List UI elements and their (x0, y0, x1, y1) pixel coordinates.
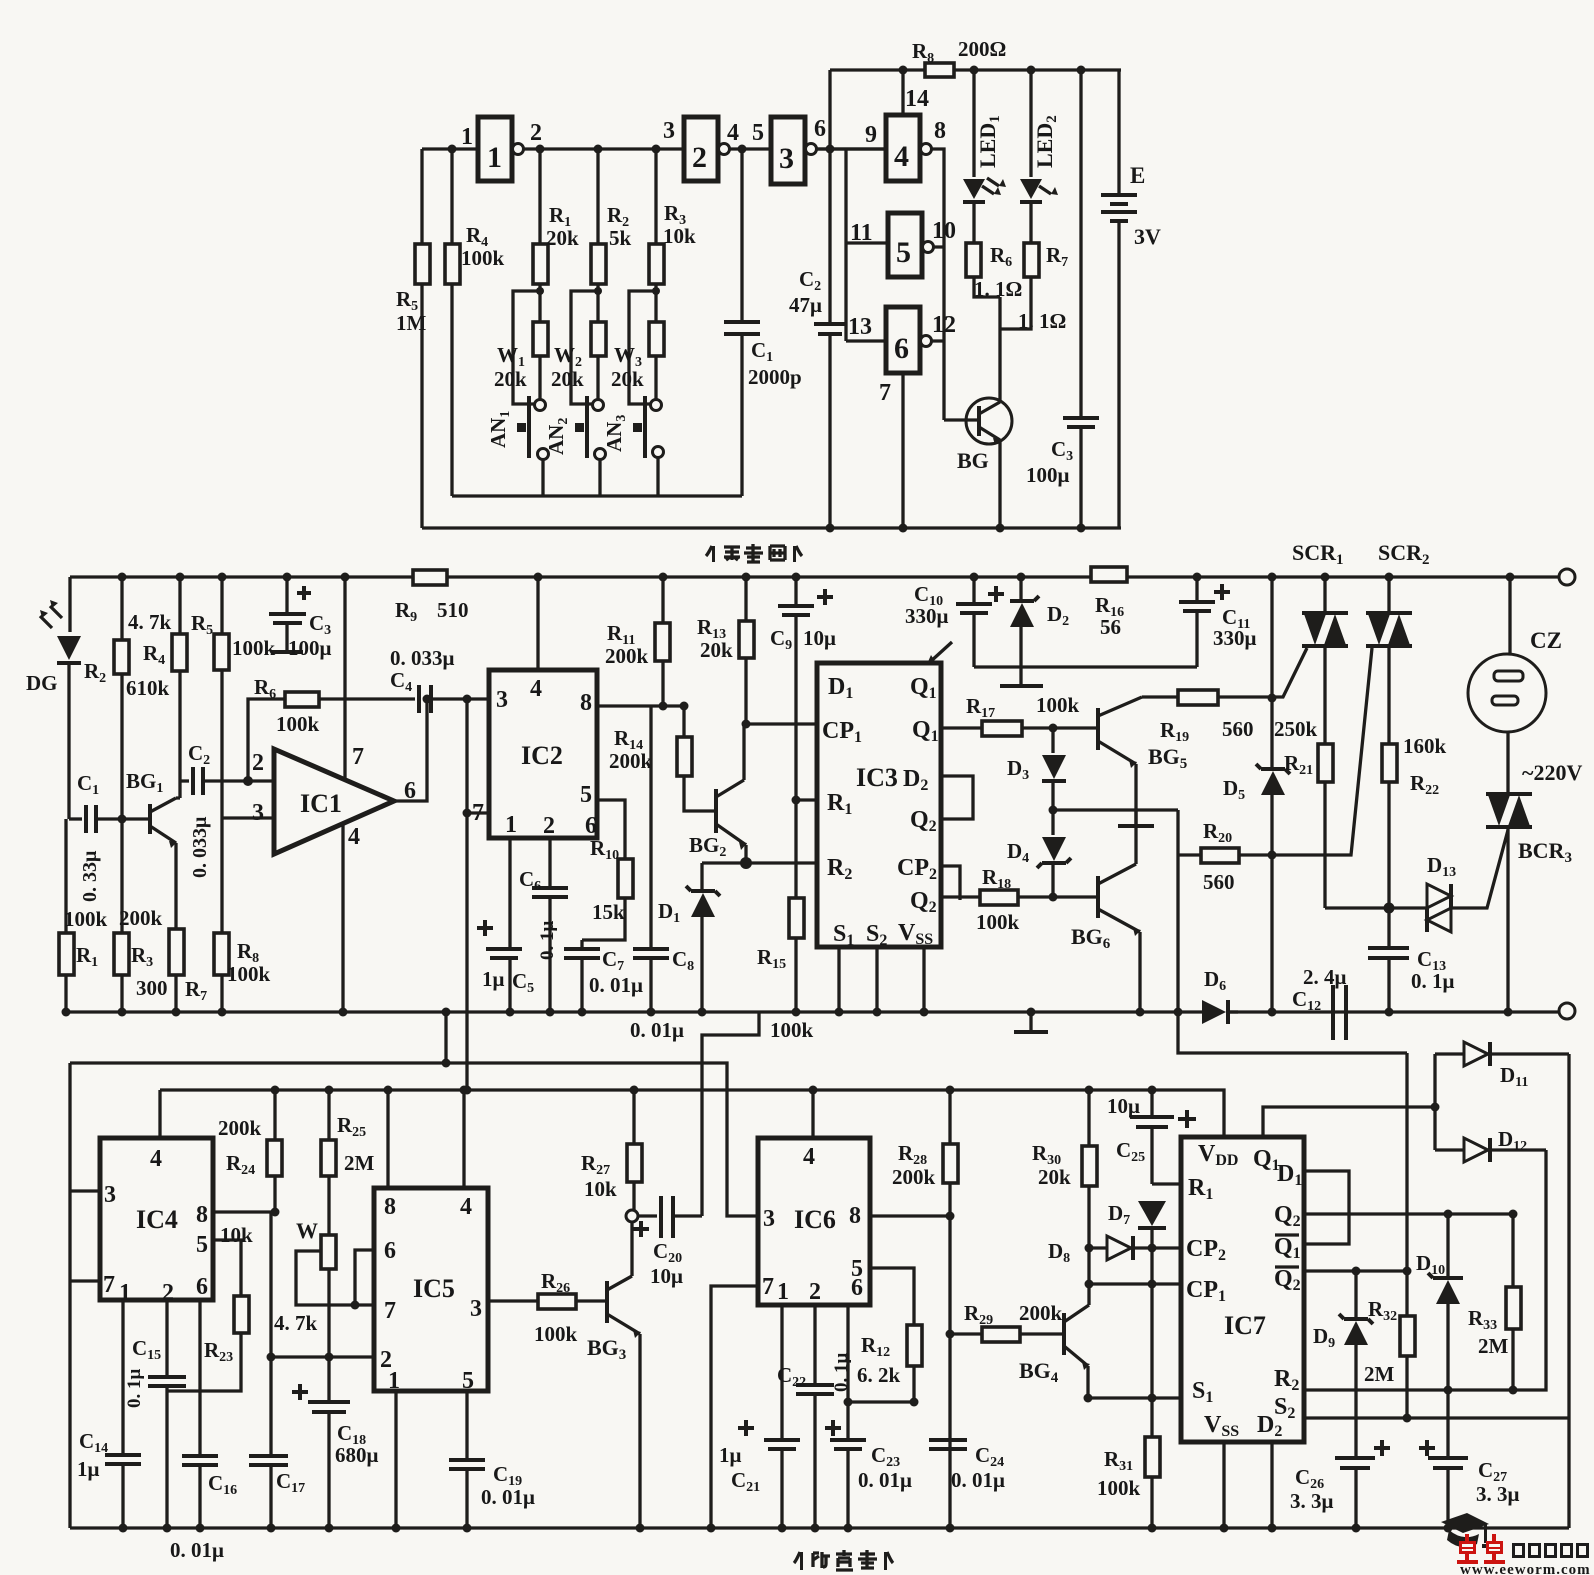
wire BG6 emitter to bus (1138, 932, 1141, 1012)
svg-text:5: 5 (196, 1232, 208, 1258)
junction dots middle (118, 573, 127, 582)
capacitor C21 1u pin1 (780, 1305, 783, 1438)
wire IC5 pin2 row (271, 1355, 374, 1358)
svg-text:20k: 20k (611, 367, 644, 391)
svg-text:IC1: IC1 (300, 789, 342, 818)
wire BG5 collector to R19 (1142, 695, 1178, 698)
svg-text:8: 8 (196, 1202, 208, 1228)
wire IC6 pin4 to W2 (811, 1090, 814, 1138)
svg-text:10k: 10k (584, 1177, 617, 1201)
svg-text:2. 4μ: 2. 4μ (1303, 965, 1347, 989)
capacitor C12 2.4u on bus (1333, 985, 1346, 1040)
wire IC7 D1-Q1bar loop (1304, 1171, 1349, 1244)
resistor R25 2M (327, 1090, 330, 1140)
svg-text:100k: 100k (770, 1018, 814, 1042)
svg-text:BCR3: BCR3 (1518, 838, 1572, 866)
transistor BG5 (1096, 708, 1100, 750)
wire IC7 Vss D2 pins down (1224, 1442, 1272, 1528)
svg-text:7: 7 (879, 380, 891, 406)
svg-text:20k: 20k (1038, 1165, 1071, 1189)
D2 ground stub (1019, 667, 1022, 684)
svg-text:0. 1μ: 0. 1μ (124, 1369, 145, 1409)
wire bus-to-W1 link (444, 1012, 447, 1063)
capacitor C13 0.1u (1368, 948, 1409, 958)
resistor R30 20k (1087, 1090, 1090, 1146)
resistor R28 200k (948, 1090, 951, 1144)
wire IC1 output to C4 node (394, 699, 427, 801)
svg-text:13: 13 (848, 314, 872, 340)
svg-text:www.eeworm.com: www.eeworm.com (1460, 1562, 1591, 1575)
resistor R14 200k (677, 737, 692, 776)
wire IC6 pin8 row (870, 1214, 950, 1217)
capacitor C18 680u (308, 1402, 350, 1412)
svg-text:8: 8 (849, 1203, 861, 1229)
transistor BG1 (148, 804, 152, 834)
wire C10-C11 bottom link (974, 665, 1197, 668)
svg-text:IC2: IC2 (521, 741, 563, 770)
transistor BG6 (1096, 876, 1100, 918)
IC4 box (100, 1138, 213, 1300)
resistor R7 emitter (169, 929, 184, 975)
wire IC4 pin7 (70, 1279, 100, 1282)
capacitor C14 1u pin1 (121, 1300, 124, 1453)
svg-text:5: 5 (580, 782, 592, 808)
svg-text:330μ: 330μ (905, 604, 949, 628)
svg-text:BG: BG (957, 448, 989, 473)
svg-text:6: 6 (384, 1238, 396, 1264)
svg-text:E: E (1130, 163, 1145, 188)
svg-text:4. 7k: 4. 7k (274, 1311, 318, 1335)
wire IC7 Q2 row to R33 (1304, 1214, 1513, 1287)
IC5 box (374, 1188, 488, 1391)
terminal top right (1559, 569, 1575, 585)
wire IC2 pin7 to x467 (467, 811, 489, 814)
svg-text:680μ: 680μ (335, 1443, 379, 1467)
svg-text:IC5: IC5 (413, 1274, 455, 1303)
resistor R8 200ohm (transmitter) (925, 63, 954, 77)
svg-text:6: 6 (894, 332, 909, 365)
wire Q2 out to R18 (941, 895, 980, 898)
resistor R4 610k column (178, 577, 181, 634)
resistor R4 100k (445, 244, 460, 284)
svg-text:1μ: 1μ (482, 967, 505, 991)
svg-text:14: 14 (905, 86, 929, 112)
svg-text:200k: 200k (119, 906, 163, 930)
resistor R2 5k column (596, 149, 599, 244)
wire IC5 pin5 to C19 (465, 1391, 468, 1458)
svg-text:0. 33μ: 0. 33μ (79, 850, 101, 902)
svg-text:1μ: 1μ (77, 1457, 100, 1481)
capacitor C23 0.01u pin6 (846, 1305, 849, 1438)
svg-text:1: 1 (388, 1368, 400, 1394)
svg-text:3. 3μ: 3. 3μ (1290, 1489, 1334, 1513)
wire CP1 to IC3 (744, 722, 817, 725)
IC6 box (758, 1138, 870, 1305)
svg-text:1: 1 (505, 812, 517, 838)
resistor R31 100k (1145, 1437, 1160, 1477)
wire gate6 pin7 (901, 373, 904, 528)
zener D10 (1446, 1214, 1449, 1277)
capacitor C26 3.3u (1335, 1458, 1375, 1468)
gate 6 (886, 307, 920, 373)
terminal bottom right (1559, 1003, 1575, 1019)
diode D12 (1435, 1148, 1464, 1151)
wire IC5 pin1 down (394, 1391, 397, 1528)
zener D1 (700, 863, 703, 890)
svg-text:47μ: 47μ (789, 293, 822, 317)
svg-text:6: 6 (814, 116, 826, 142)
resistor R17 100k (982, 721, 1022, 736)
svg-text:1: 1 (487, 141, 502, 174)
IC3 CP2 jog (941, 866, 960, 900)
resistor R12 6.2k (907, 1325, 922, 1366)
svg-text:1: 1 (777, 1279, 789, 1305)
gate 4 (886, 115, 920, 181)
resistor R2 (4.7k) column (120, 577, 123, 640)
triac SCR1 (1323, 577, 1326, 613)
svg-text:7: 7 (103, 1272, 115, 1298)
wire BG2 emitter down (744, 845, 747, 863)
wire R6/R7 bottoms to collector node (974, 277, 1031, 401)
svg-text:7: 7 (762, 1274, 774, 1300)
svg-text:10μ: 10μ (803, 626, 836, 650)
wire IC4 pin8 row (213, 1210, 275, 1213)
wire x830 vertical with C2 (828, 70, 831, 528)
svg-text:5: 5 (752, 120, 764, 146)
svg-text:200k: 200k (218, 1116, 262, 1140)
svg-text:2M: 2M (1478, 1334, 1509, 1358)
wire gate row to D13 (1325, 906, 1427, 909)
wire IC5 pin3 to R26 (488, 1299, 538, 1302)
resistor R29 200k (950, 1332, 982, 1335)
capacitor C8 0.01u (649, 706, 652, 947)
wire IC7 R2 row (1304, 1150, 1546, 1390)
watermark logo (1441, 1513, 1591, 1575)
svg-text:560: 560 (1222, 717, 1254, 741)
wire CP1 row (1089, 1282, 1181, 1285)
diode D11 (1435, 1052, 1464, 1055)
wire right edge vertical (1567, 1054, 1570, 1528)
transistor BG (966, 398, 1012, 444)
zener D5 (1270, 577, 1273, 768)
resistor R1 20k column (538, 149, 541, 244)
IC3 box (817, 663, 941, 947)
resistor R8 100k lower (214, 933, 229, 975)
svg-text:200Ω: 200Ω (958, 37, 1006, 61)
zener D2 (1019, 577, 1022, 600)
svg-text:330μ: 330μ (1213, 626, 1257, 650)
LED1 (972, 70, 975, 177)
svg-text:10μ: 10μ (650, 1264, 683, 1288)
wire IC7 Q1 pin to D11/D12 node (1263, 1107, 1435, 1137)
svg-text:LED1: LED1 (975, 115, 1003, 168)
svg-text:7: 7 (384, 1298, 396, 1324)
svg-text:CZ: CZ (1530, 628, 1562, 653)
svg-text:IC7: IC7 (1224, 1311, 1266, 1340)
pushbutton AN2 (593, 400, 604, 411)
svg-text:3: 3 (104, 1182, 116, 1208)
svg-text:1M: 1M (396, 311, 427, 335)
capacitor C16 pin6 (198, 1300, 201, 1454)
svg-text:IC6: IC6 (794, 1205, 836, 1234)
svg-text:0. 01μ: 0. 01μ (481, 1485, 535, 1509)
svg-text:2: 2 (252, 750, 264, 776)
wire R2 row to IC3 (702, 861, 817, 864)
wire receiver top bus (70, 575, 1560, 578)
resistor R10 15k (618, 859, 633, 898)
svg-text:0. 1μ: 0. 1μ (1411, 969, 1455, 993)
svg-text:20k: 20k (551, 367, 584, 391)
capacitor C2 0.033u (180, 779, 189, 782)
socket CZ (1468, 654, 1546, 732)
wire IC2 pin4 to bus (536, 577, 539, 670)
svg-text:20k: 20k (700, 638, 733, 662)
wire outer bottom bus (422, 526, 1121, 529)
svg-text:2M: 2M (1364, 1362, 1395, 1386)
junction dots bottom (442, 1059, 451, 1068)
transistor BG2 (714, 789, 718, 833)
transistor BG3 (605, 1281, 609, 1323)
capacitor C3 100u (1079, 70, 1082, 416)
resistor R3 10k column (654, 149, 657, 244)
wire x1407 vertical from y1053 (1405, 1053, 1408, 1271)
svg-text:SCR1: SCR1 (1292, 540, 1344, 568)
svg-text:100k: 100k (64, 907, 108, 931)
svg-text:3: 3 (496, 687, 508, 713)
svg-text:0. 033μ: 0. 033μ (189, 816, 211, 878)
wire IC1 pin3 from R5/R8 column (222, 816, 274, 819)
svg-text:160k: 160k (1403, 734, 1447, 758)
wire IC2 pin8 row (597, 704, 684, 707)
resistor R11 200k (661, 577, 664, 623)
wire x1178 long vertical down (1178, 810, 1407, 1053)
svg-text:0. 1μ: 0. 1μ (537, 921, 558, 961)
capacitor C5 1u pin1 (508, 838, 511, 947)
wire IC7 S2 row (1304, 1416, 1569, 1419)
svg-text:200k: 200k (609, 749, 653, 773)
wire IC5 pin6 jog (355, 1250, 374, 1305)
capacitor C11 330u (1195, 577, 1198, 600)
diode D6 on bus (1202, 1000, 1226, 1024)
svg-text:1μ: 1μ (719, 1443, 742, 1467)
capacitor C1 2000p (740, 149, 743, 320)
svg-text:8: 8 (384, 1194, 396, 1220)
svg-text:100k: 100k (1036, 693, 1080, 717)
svg-text:7: 7 (352, 744, 364, 770)
photodiode DG column (68, 577, 71, 632)
diode D7 (1138, 1201, 1166, 1226)
svg-text:6. 2k: 6. 2k (857, 1363, 901, 1387)
ground symbol (1029, 1012, 1032, 1030)
svg-text:2000p: 2000p (748, 365, 802, 389)
IC3 bottom pins S1 S2 Vss (839, 947, 924, 1012)
resistor R5 column (220, 577, 223, 634)
wire Q1 out to R17 (941, 726, 982, 729)
resistor R19 560 (1178, 690, 1218, 705)
svg-text:0. 01μ: 0. 01μ (858, 1468, 912, 1492)
capacitor C4 0.033u (419, 685, 431, 713)
capacitor C22 0.1u pin2 (813, 1305, 816, 1383)
svg-text:15k: 15k (592, 900, 625, 924)
capacitor C7 0.01u (580, 940, 583, 947)
capacitor C17 column (269, 1212, 272, 1454)
resistor R24 200k (273, 1090, 276, 1140)
resistor R6 100k feedback (285, 692, 319, 707)
svg-text:2: 2 (543, 813, 555, 839)
svg-text:1: 1 (461, 124, 473, 150)
wire S1 row (1088, 1396, 1181, 1399)
transistor BG4 (1062, 1313, 1066, 1355)
capacitor C3 100u (receiver) (285, 577, 288, 612)
battery E 3V (1117, 70, 1120, 193)
label (transmitter) chinese (706, 544, 802, 562)
wire gate4 pin14 (901, 70, 904, 115)
svg-text:0. 01μ: 0. 01μ (630, 1018, 684, 1042)
wire left edge vertical (68, 1063, 71, 1528)
svg-text:8: 8 (580, 690, 592, 716)
svg-text:100μ: 100μ (288, 636, 332, 660)
diode D8 (1085, 1244, 1094, 1253)
svg-text:100μ: 100μ (1026, 463, 1070, 487)
svg-text:4. 7k: 4. 7k (128, 610, 172, 634)
wire IC6 pin7 down (711, 1286, 758, 1528)
svg-text:100k: 100k (232, 636, 276, 660)
resistor R1 100k (59, 933, 74, 975)
resistor R23 10k (234, 1296, 249, 1333)
wire W2 supply bus (160, 1090, 1224, 1137)
wire gate3 out to vertical x830 (816, 147, 886, 150)
wire x467 long vertical (465, 699, 468, 1090)
gate 5 (888, 213, 922, 277)
svg-text:2: 2 (530, 120, 542, 146)
junction dots transmitter (448, 145, 457, 154)
svg-text:250k: 250k (1274, 717, 1318, 741)
svg-text:3: 3 (252, 800, 264, 826)
resistor R18 100k (980, 890, 1018, 905)
svg-text:6: 6 (851, 1275, 863, 1301)
svg-text:100k: 100k (976, 910, 1020, 934)
svg-text:4: 4 (803, 1144, 815, 1170)
svg-text:IC3: IC3 (856, 763, 898, 792)
svg-text:200k: 200k (1019, 1301, 1063, 1325)
capacitor C6 0.1u pin2 (548, 838, 551, 886)
gate 1 (478, 117, 512, 181)
wire transmitter top bus (830, 68, 1121, 71)
svg-text:200k: 200k (605, 644, 649, 668)
resistor R5 1M (415, 244, 430, 284)
svg-text:4: 4 (460, 1194, 472, 1220)
capacitor C9 10u (794, 577, 797, 604)
capacitor C10 330u (972, 577, 975, 602)
triac SCR2 (1387, 577, 1390, 613)
wire BG5 emitter bar (1134, 764, 1137, 825)
wire IC1 pin7 power (343, 577, 346, 779)
svg-text:3: 3 (663, 118, 675, 144)
wire receiver middle bottom bus (63, 1010, 1560, 1013)
svg-text:4: 4 (348, 824, 360, 850)
wire IC4 pin5 to R23 (213, 1240, 241, 1296)
svg-text:3: 3 (779, 142, 794, 175)
wire BG2 collector to CP1 node (742, 724, 745, 780)
svg-text:9: 9 (865, 122, 877, 148)
triac BCR3 (1486, 794, 1532, 827)
wire IC2 pin5 to R10 (597, 800, 625, 859)
zener D9 (1354, 1271, 1357, 1318)
diode D13 double (1427, 884, 1451, 908)
wire IC4 pin4 to W2 (158, 1090, 161, 1138)
wire IC7 Q2bar row (1304, 1269, 1407, 1272)
svg-text:10k: 10k (220, 1223, 253, 1247)
capacitor C19 0.01u (449, 1460, 485, 1469)
wire bottom ground bus (70, 1526, 1569, 1529)
wire BG4 emitter (1086, 1366, 1089, 1398)
resistor R13 20k (744, 577, 747, 621)
svg-text:3: 3 (763, 1206, 775, 1232)
svg-text:0. 01μ: 0. 01μ (951, 1468, 1005, 1492)
wire inner bottom bus (452, 494, 742, 497)
wire left outer vertical (420, 149, 423, 528)
capacitor C20 10u (638, 1214, 657, 1217)
wire D3/D4 node to x1178 (1053, 808, 1178, 811)
wire BG4 collector (1087, 1284, 1090, 1305)
svg-text:W: W (296, 1218, 318, 1243)
svg-text:5: 5 (896, 236, 911, 269)
wire R1 pin row (1152, 1182, 1181, 1185)
svg-text:100k: 100k (461, 246, 505, 270)
svg-text:IC4: IC4 (136, 1205, 178, 1234)
capacitor C27 3.3u (1428, 1458, 1468, 1468)
gate 3 (771, 117, 805, 184)
svg-text:SCR2: SCR2 (1378, 540, 1430, 568)
svg-text:560: 560 (1203, 870, 1235, 894)
potentiometer W1 20k (533, 322, 548, 356)
resistor R16 56 on bus (1091, 567, 1127, 582)
wire gate 4/5/6 input vertical (846, 149, 888, 341)
wire IC1 pin4 ground (341, 825, 344, 1012)
LED2 (1029, 70, 1032, 177)
wire gate outputs to x944 vertical (931, 149, 944, 420)
capacitor C1 0.33u (69, 817, 82, 820)
pushbutton AN1 (535, 400, 546, 411)
svg-text:200k: 200k (892, 1165, 936, 1189)
resistor R3 200k lower (114, 933, 129, 975)
wire R1 pin to IC3 (796, 798, 817, 801)
svg-text:3: 3 (470, 1296, 482, 1322)
resistor R22 160k (1382, 744, 1397, 782)
pushbutton AN3 (651, 400, 662, 411)
wire IC4 pin3 (70, 1189, 100, 1192)
wire BG3 collector up to circle node (630, 1222, 633, 1276)
resistor R27 10k (632, 1090, 635, 1144)
gate 2 (684, 117, 718, 181)
svg-text:56: 56 (1100, 615, 1121, 639)
svg-text:3. 3μ: 3. 3μ (1476, 1482, 1520, 1506)
svg-text:4: 4 (894, 140, 909, 173)
svg-text:6: 6 (196, 1274, 208, 1300)
capacitor C25 10u (1150, 1090, 1153, 1115)
wire D11/D12 left vertical (1433, 1054, 1436, 1150)
wire 0.01u jog to C20 (702, 1012, 759, 1216)
svg-text:2: 2 (809, 1279, 821, 1305)
svg-text:20k: 20k (494, 367, 527, 391)
svg-text:3V: 3V (1134, 224, 1161, 249)
resistor R20 560 (1178, 853, 1201, 856)
capacitor C24 0.01u (929, 1440, 967, 1449)
wire IC6 pin5 to R12 (870, 1268, 914, 1325)
label (receiver) chinese (794, 1550, 893, 1570)
wire BG3 emitter down (638, 1334, 641, 1528)
svg-text:4: 4 (530, 676, 542, 702)
